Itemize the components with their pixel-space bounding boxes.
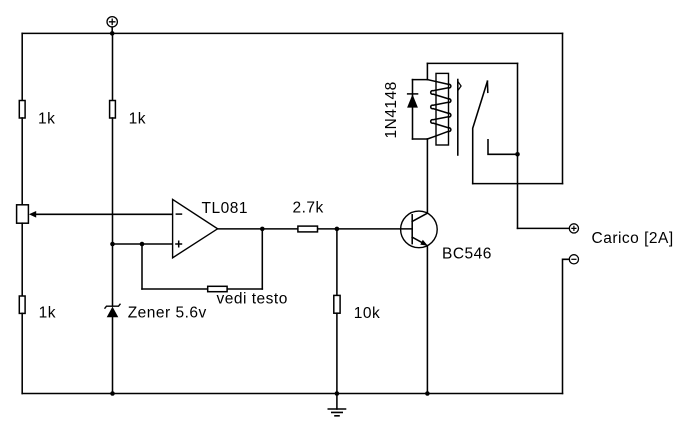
transistor Q1 BC546 bbox=[401, 211, 492, 262]
svg-text:1k: 1k bbox=[38, 110, 55, 127]
junction node at +V bbox=[110, 31, 115, 36]
svg-text:10k: 10k bbox=[354, 305, 381, 322]
bottom ground rail wire bbox=[22, 393, 562, 395]
svg-text:1N4148: 1N4148 bbox=[383, 81, 400, 138]
ground bbox=[328, 394, 347, 416]
svg-text:2.7k: 2.7k bbox=[293, 199, 324, 216]
wire collector to relay coil bbox=[426, 139, 428, 213]
svg-text:Zener 5.6v: Zener 5.6v bbox=[128, 305, 207, 322]
op-amp U1 TL081 bbox=[173, 199, 248, 257]
svg-text:vedi testo: vedi testo bbox=[217, 291, 288, 308]
wire 10k branch upper bbox=[336, 229, 338, 296]
wire feedback right leg bbox=[261, 229, 263, 289]
wire coil top stub bbox=[426, 63, 428, 79]
wire bbox=[112, 118, 114, 306]
potentiometer P1 bbox=[17, 205, 37, 223]
wire bbox=[21, 313, 23, 393]
wire - terminal to ground rail bbox=[563, 259, 570, 393]
wire non-inverting input bbox=[113, 243, 173, 245]
wire relay frame top bbox=[427, 62, 517, 64]
svg-text:TL081: TL081 bbox=[202, 200, 248, 217]
wire bbox=[21, 118, 23, 205]
wire op-amp output bbox=[218, 228, 413, 230]
wire 10k branch lower bbox=[336, 313, 338, 393]
svg-text:BC546: BC546 bbox=[442, 245, 492, 262]
wire relay fixed contact bbox=[488, 140, 518, 155]
svg-text:1k: 1k bbox=[129, 110, 146, 127]
wire left rail upper bbox=[21, 33, 23, 100]
resistor R3 1k bbox=[110, 101, 146, 128]
junction node bbox=[110, 242, 115, 247]
resistor R6 10k bbox=[334, 295, 381, 321]
junction node zener-ground rail bbox=[110, 391, 115, 396]
wire emitter to ground rail bbox=[426, 246, 428, 394]
zener diode ZD1 5.6v bbox=[105, 304, 207, 322]
junction node output-10k bbox=[335, 227, 340, 232]
wire bbox=[112, 317, 114, 394]
svg-text:1k: 1k bbox=[39, 305, 56, 322]
+ output terminal bbox=[569, 224, 578, 233]
junction node feedback tap bbox=[140, 242, 145, 247]
relay switch blade bbox=[473, 81, 488, 183]
svg-text:Carico [2A]: Carico [2A] bbox=[592, 230, 674, 247]
wire diode bottom connection bbox=[413, 138, 428, 140]
+V supply terminal bbox=[107, 17, 117, 34]
wire feedback left leg bbox=[141, 244, 143, 289]
junction node output-feedback bbox=[260, 227, 265, 232]
junction node emitter-ground rail bbox=[425, 391, 430, 396]
wire to + output terminal bbox=[518, 227, 570, 229]
wire diode top connection bbox=[413, 79, 428, 81]
relay K1 coil bbox=[427, 73, 450, 145]
diode D1 1N4148 bbox=[383, 80, 418, 139]
wire pot wiper to op-amp inverting input bbox=[35, 213, 173, 215]
- output terminal bbox=[569, 255, 578, 264]
junction node relay contact bbox=[515, 152, 520, 157]
wire relay common vertical bbox=[517, 63, 519, 228]
resistor R5 vedi testo bbox=[208, 286, 288, 307]
wire bbox=[21, 223, 23, 296]
wire blade to right rail bbox=[473, 183, 563, 185]
resistor R2 1k bbox=[19, 296, 56, 322]
top supply rail wire bbox=[22, 32, 562, 34]
junction node 10k-ground rail bbox=[335, 391, 340, 396]
relay armature line bbox=[458, 80, 461, 156]
wire middle rail upper bbox=[112, 33, 114, 100]
wire right rail from top bbox=[562, 33, 564, 183]
resistor R1 1k bbox=[19, 101, 55, 128]
resistor R4 2.7k bbox=[293, 199, 324, 232]
wire feedback bottom bbox=[142, 288, 262, 290]
